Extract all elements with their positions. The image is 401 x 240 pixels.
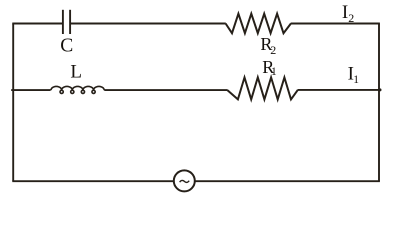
wire: left edge: [12, 24, 14, 182]
inductor L: [51, 86, 104, 93]
wire: right edge: [378, 24, 380, 182]
wire: bottom left segment: [12, 180, 173, 182]
wire: top middle segment: [71, 23, 226, 25]
wire: middle right segment: [298, 89, 381, 91]
svg-text:2: 2: [270, 43, 276, 57]
svg-text:2: 2: [348, 11, 354, 25]
wire: top left segment: [12, 23, 62, 25]
AC source: [174, 170, 195, 191]
wire: middle left segment: [11, 89, 50, 91]
junction dot: [379, 88, 382, 91]
svg-text:I: I: [342, 2, 348, 23]
svg-text:L: L: [70, 62, 82, 83]
resistor R2: [226, 14, 291, 34]
svg-text:1: 1: [271, 66, 277, 78]
wire: top right segment: [291, 23, 380, 25]
svg-text:C: C: [60, 35, 73, 56]
svg-text:1: 1: [353, 74, 359, 86]
wire: bottom right segment: [195, 180, 380, 182]
wire: middle segment between L and R1: [104, 89, 227, 91]
AC source tilde: [180, 180, 189, 182]
capacitor C: [63, 10, 70, 34]
resistor R1: [228, 77, 298, 99]
